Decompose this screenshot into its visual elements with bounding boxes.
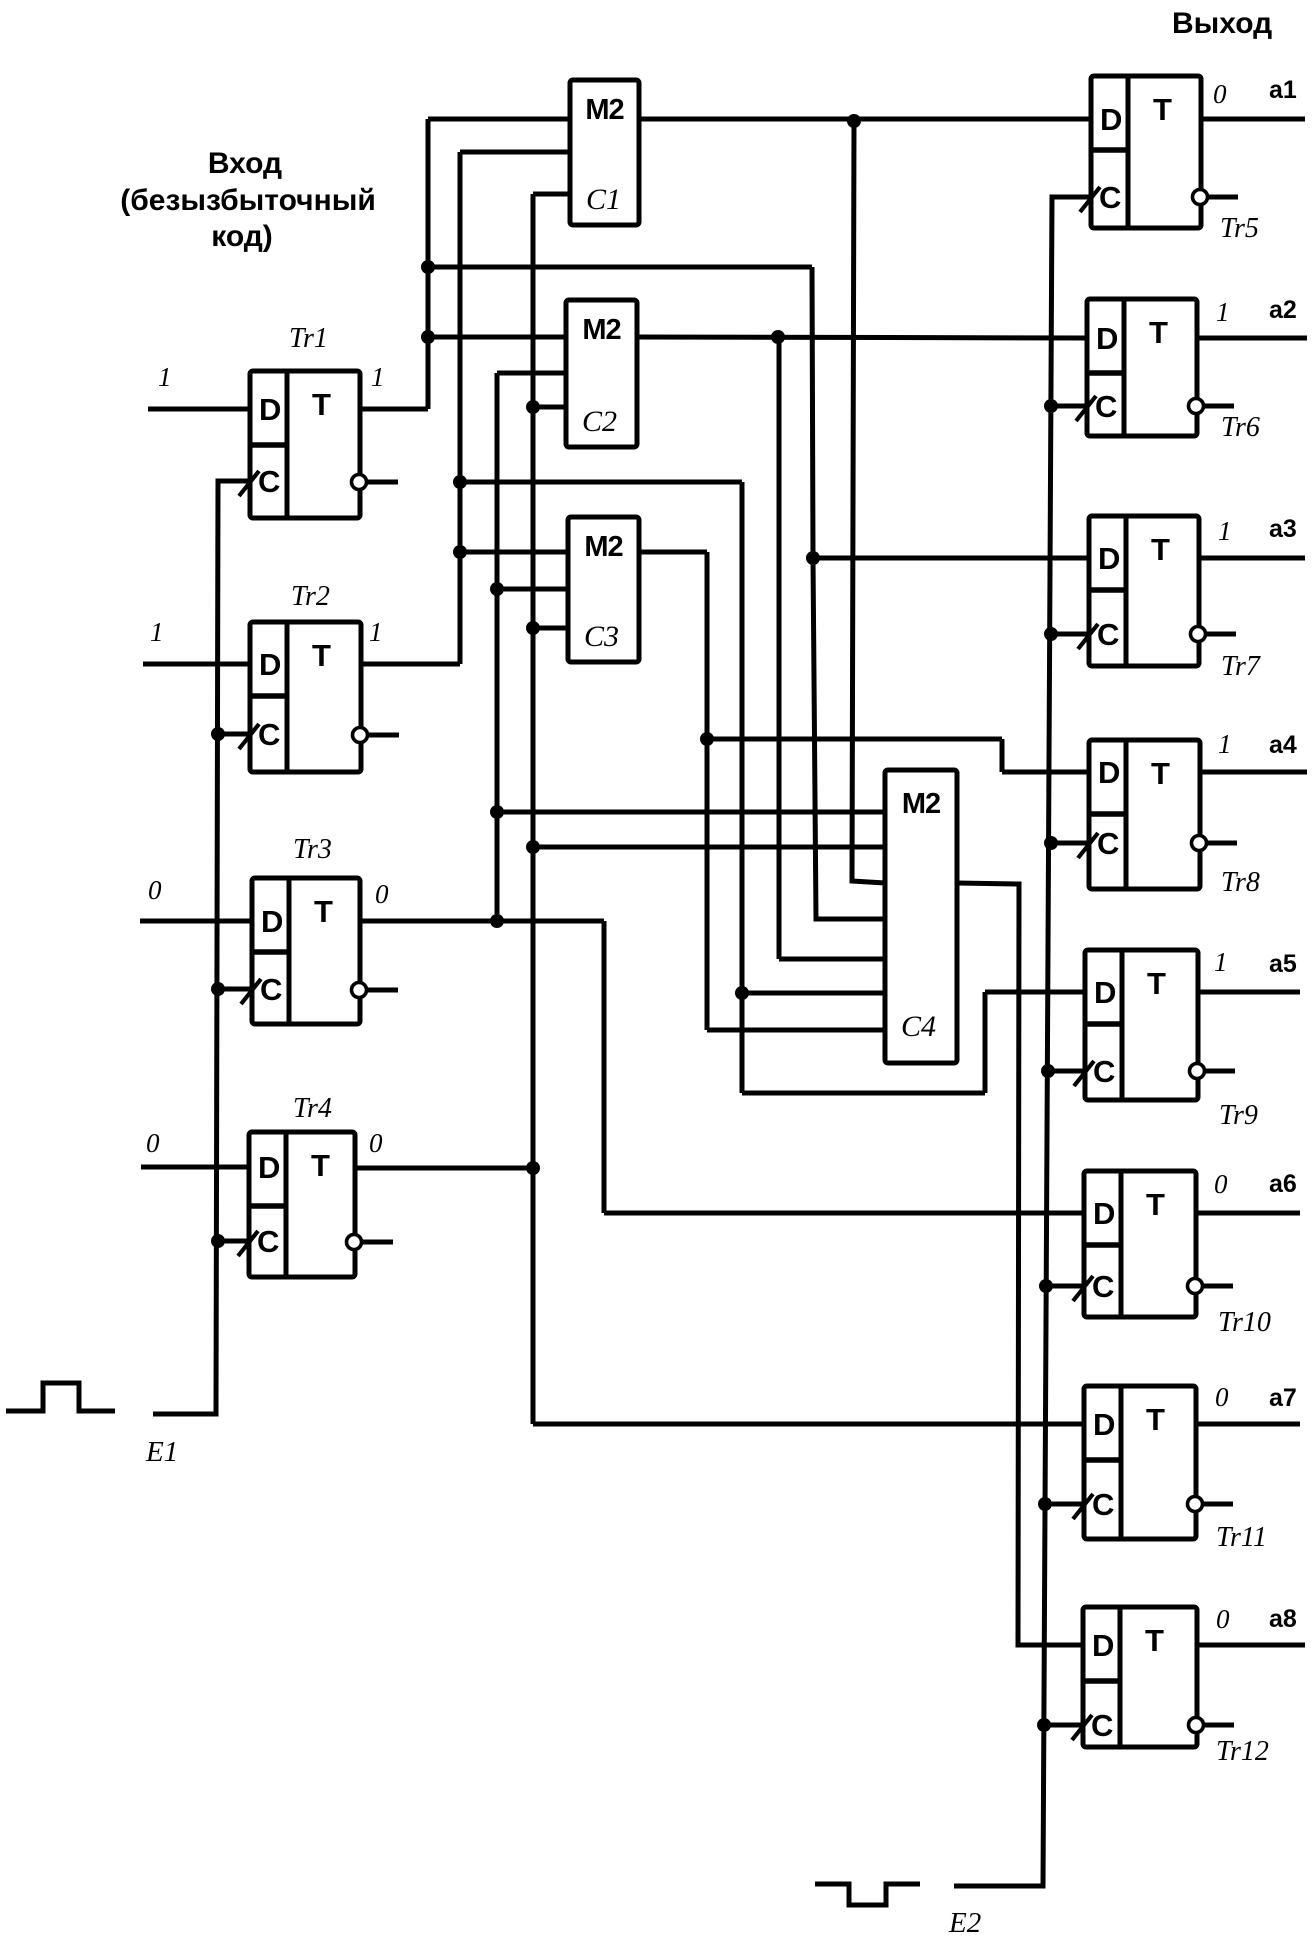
svg-text:C4: C4 (901, 1010, 936, 1043)
svg-text:a1: a1 (1269, 76, 1297, 104)
svg-text:Tr2: Tr2 (291, 581, 330, 612)
svg-text:D: D (259, 392, 281, 427)
svg-text:D: D (259, 647, 281, 682)
svg-text:0: 0 (375, 879, 389, 909)
svg-text:Tr3: Tr3 (293, 834, 332, 865)
svg-text:T: T (1149, 315, 1168, 350)
svg-text:1: 1 (1214, 947, 1228, 977)
svg-text:Tr9: Tr9 (1219, 1100, 1258, 1131)
svg-text:M2: M2 (584, 531, 622, 563)
svg-text:0: 0 (1216, 1604, 1230, 1634)
svg-text:Tr5: Tr5 (1220, 213, 1259, 244)
svg-text:a6: a6 (1269, 1170, 1297, 1198)
svg-text:D: D (1094, 975, 1116, 1010)
svg-text:D: D (258, 1150, 280, 1185)
svg-text:1: 1 (371, 362, 385, 392)
svg-text:D: D (1100, 102, 1122, 137)
svg-text:1: 1 (150, 617, 164, 647)
svg-text:T: T (1147, 966, 1166, 1001)
svg-text:C2: C2 (582, 405, 617, 438)
svg-text:T: T (1145, 1623, 1164, 1658)
svg-text:T: T (1151, 532, 1170, 567)
svg-text:Вход: Вход (208, 147, 282, 180)
svg-text:T: T (312, 638, 331, 673)
svg-text:C: C (1097, 617, 1119, 652)
svg-text:a3: a3 (1269, 515, 1297, 543)
svg-text:1: 1 (1218, 516, 1232, 546)
svg-text:0: 0 (146, 1128, 160, 1158)
svg-text:C: C (1091, 1708, 1113, 1743)
svg-text:E2: E2 (948, 1907, 981, 1938)
svg-text:a4: a4 (1269, 731, 1297, 759)
svg-text:D: D (261, 904, 283, 939)
svg-text:D: D (1093, 1196, 1115, 1231)
svg-text:C: C (260, 972, 282, 1007)
svg-text:Tr1: Tr1 (289, 323, 328, 354)
svg-text:D: D (1092, 1628, 1114, 1663)
svg-text:T: T (1153, 92, 1172, 127)
svg-text:D: D (1093, 1407, 1115, 1442)
svg-text:0: 0 (1213, 79, 1227, 109)
svg-text:E1: E1 (145, 1436, 178, 1468)
svg-text:Tr10: Tr10 (1218, 1307, 1271, 1338)
svg-text:C3: C3 (584, 620, 619, 653)
svg-text:C: C (258, 717, 280, 752)
svg-text:T: T (311, 1148, 330, 1183)
svg-text:C: C (1097, 826, 1119, 861)
svg-text:T: T (1146, 1402, 1165, 1437)
svg-text:C: C (1095, 389, 1117, 424)
svg-text:C: C (257, 1224, 279, 1259)
svg-text:D: D (1096, 321, 1118, 356)
svg-text:C: C (1093, 1054, 1115, 1089)
svg-text:T: T (312, 387, 331, 422)
svg-text:Tr12: Tr12 (1216, 1736, 1269, 1767)
svg-text:a2: a2 (1269, 296, 1297, 324)
svg-text:D: D (1098, 755, 1120, 790)
svg-text:M2: M2 (585, 94, 623, 126)
svg-text:Tr8: Tr8 (1221, 867, 1260, 898)
svg-text:1: 1 (1216, 297, 1230, 327)
svg-text:0: 0 (1214, 1169, 1228, 1199)
svg-text:1: 1 (369, 617, 383, 647)
svg-text:0: 0 (1215, 1382, 1229, 1412)
svg-text:a7: a7 (1269, 1384, 1297, 1412)
svg-text:C: C (1092, 1269, 1114, 1304)
svg-text:C1: C1 (586, 183, 621, 216)
svg-text:Tr11: Tr11 (1216, 1522, 1267, 1553)
svg-text:1: 1 (1218, 729, 1232, 759)
svg-text:D: D (1098, 541, 1120, 576)
svg-text:Выход: Выход (1172, 7, 1272, 40)
svg-text:M2: M2 (582, 314, 620, 346)
svg-text:C: C (1099, 180, 1121, 215)
svg-text:код): код) (211, 220, 273, 253)
svg-text:C: C (1092, 1487, 1114, 1522)
svg-text:C: C (258, 464, 280, 499)
svg-text:(безызбыточный: (безызбыточный (120, 184, 376, 217)
svg-text:T: T (1146, 1187, 1165, 1222)
svg-text:Tr6: Tr6 (1221, 412, 1260, 443)
svg-text:a5: a5 (1269, 950, 1297, 978)
svg-text:0: 0 (148, 875, 162, 905)
svg-text:0: 0 (369, 1128, 383, 1158)
svg-text:T: T (1151, 756, 1170, 791)
svg-text:M2: M2 (902, 788, 940, 820)
svg-text:Tr4: Tr4 (293, 1093, 332, 1124)
svg-text:T: T (314, 894, 333, 929)
svg-text:1: 1 (158, 362, 172, 392)
svg-text:a8: a8 (1269, 1605, 1297, 1633)
svg-text:Tr7: Tr7 (1221, 651, 1261, 682)
